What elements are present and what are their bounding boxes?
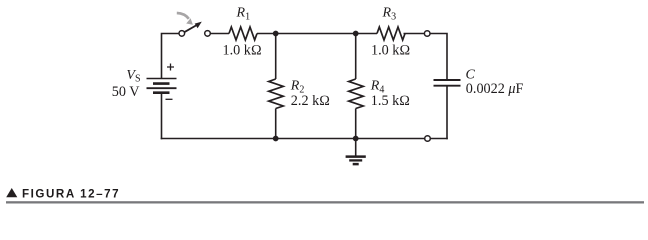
svg-text:2.2 kΩ: 2.2 kΩ — [291, 93, 330, 109]
svg-text:FIGURA 12–77: FIGURA 12–77 — [22, 188, 120, 201]
terminal bottom (open) — [425, 136, 431, 142]
battery VS — [147, 64, 177, 100]
wire bottom rail left — [161, 138, 425, 140]
svg-text:R1: R1 — [236, 6, 251, 23]
node junction R3/R4 — [353, 31, 359, 37]
terminal top (open) — [424, 31, 430, 37]
wire R4 branch top — [355, 34, 357, 80]
wire top: switch to R1 — [210, 33, 229, 35]
switch closing arrow (gray) — [177, 13, 189, 19]
svg-text:VS: VS — [126, 68, 140, 84]
wire top: R3 to terminal — [404, 33, 425, 35]
svg-text:1.0 kΩ: 1.0 kΩ — [223, 43, 262, 59]
capacitor C — [434, 80, 461, 86]
wire top: R1 to R3 — [257, 33, 377, 35]
svg-text:0.0022 μF: 0.0022 μF — [466, 81, 524, 97]
caption rule — [6, 201, 644, 203]
resistor R3 — [377, 27, 405, 40]
resistor R1 — [229, 27, 257, 40]
wire left rail top segment — [162, 33, 180, 79]
svg-text:50 V: 50 V — [112, 84, 140, 100]
switch SW blade with arrowhead — [184, 25, 197, 33]
ground — [346, 139, 366, 165]
resistor R4 — [349, 79, 364, 109]
svg-text:1.0 kΩ: 1.0 kΩ — [371, 43, 410, 59]
node junction R1/R2 — [273, 31, 279, 37]
switch SW left post — [179, 31, 185, 37]
node junction R4/ground — [353, 136, 359, 142]
wire R2 branch bottom — [275, 109, 277, 139]
wire left rail bottom segment — [161, 93, 163, 140]
svg-text:1.5 kΩ: 1.5 kΩ — [371, 93, 410, 109]
wire capacitor bottom stem — [446, 86, 448, 140]
wire top right to capacitor corner — [430, 33, 448, 80]
node junction R2 bottom — [273, 136, 279, 142]
switch SW right post — [205, 31, 211, 37]
svg-text:R3: R3 — [382, 6, 397, 23]
resistor R2 — [269, 79, 284, 109]
figure caption — [6, 188, 17, 197]
wire bottom rail right — [430, 138, 448, 140]
wire R2 branch top — [275, 34, 277, 80]
wire R4 branch bottom — [355, 109, 357, 139]
